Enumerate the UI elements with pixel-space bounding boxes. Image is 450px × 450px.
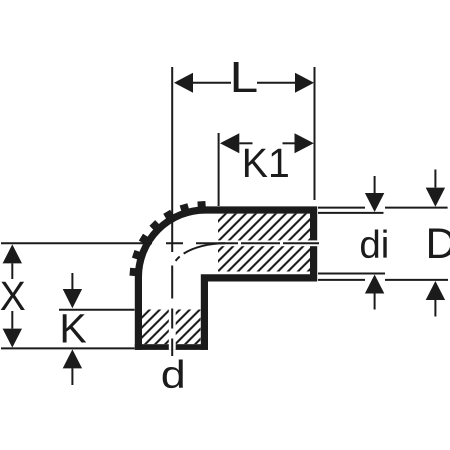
svg-text:K1: K1 — [242, 140, 290, 186]
svg-text:X: X — [0, 273, 26, 319]
svg-text:di: di — [359, 224, 389, 267]
di arrows — [374, 176, 376, 310]
hatch socket horizontal leg — [218, 214, 311, 272]
svg-text:d: d — [161, 354, 186, 397]
white channel along horizontal centerline through socket — [218, 240, 317, 246]
white channel along vertical centerline through socket — [169, 310, 176, 350]
svg-text:D: D — [426, 220, 450, 268]
corrugation teeth on bend — [130, 201, 202, 272]
dimension X — [3, 244, 22, 347]
svg-text:K: K — [59, 305, 86, 351]
dimension L — [193, 67, 315, 200]
dimension K — [59, 273, 135, 385]
hatch socket vertical leg — [142, 310, 201, 345]
dimension di / D reference lines — [318, 208, 448, 280]
vertical centerline — [171, 67, 173, 356]
elbow outline — [138, 210, 313, 350]
horizontal centerline — [1, 242, 319, 244]
dimension K1 — [219, 133, 295, 206]
svg-text:L: L — [230, 53, 259, 102]
socket end face (bottom) — [135, 344, 208, 350]
bend centerline arc — [172, 243, 225, 270]
D arrows — [434, 170, 436, 317]
